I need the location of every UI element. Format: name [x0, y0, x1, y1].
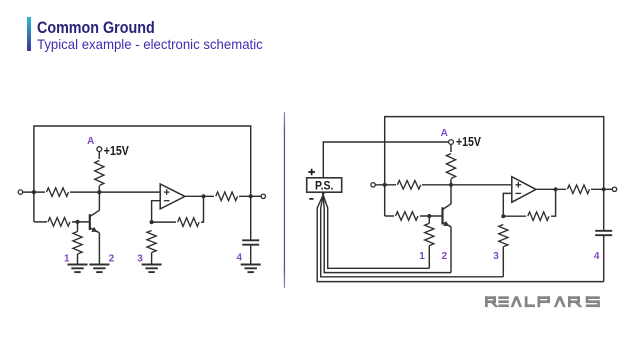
wire: op-amp output row (right) — [536, 188, 604, 190]
svg-text:4: 4 — [594, 251, 600, 262]
title — [37, 18, 155, 38]
junction: main row at collector (right) — [449, 183, 453, 187]
wire: ground bundle line 3 — [321, 193, 504, 277]
resistor input R left — [45, 186, 70, 198]
subtitle — [37, 37, 263, 52]
junction: inverting node (right) — [501, 214, 505, 218]
wire: second row base (right) — [385, 215, 443, 217]
resistor output (right) — [566, 183, 591, 195]
divider line — [284, 112, 285, 288]
svg-text:1: 1 — [64, 254, 70, 265]
resistor +15V supply (left) — [92, 159, 107, 186]
junction: output node (right) — [554, 187, 558, 191]
power supply P.S. wire + — [323, 142, 448, 178]
wire + resistor feedback (left) — [152, 196, 204, 222]
node A terminal (left) — [98, 152, 100, 192]
svg-text:1: 1 — [419, 251, 425, 262]
node A terminal (right) — [450, 144, 452, 184]
ground 4 — [241, 264, 261, 266]
wire: ground bundle line 4 — [317, 193, 604, 282]
wire + resistor feedback (right) — [503, 189, 555, 216]
junction: inverting node (left) — [150, 220, 154, 224]
svg-text:A: A — [87, 136, 94, 147]
resistor +15V supply (right) — [444, 152, 459, 179]
resistor R3 to ground (left) — [147, 231, 156, 253]
node OUT2 terminal — [604, 188, 613, 190]
capacitor C1 (left) — [250, 196, 252, 240]
svg-text:2: 2 — [109, 254, 115, 265]
op-amp U2 (right) — [503, 193, 512, 216]
junction: base node — [75, 220, 79, 224]
svg-text:+15V: +15V — [104, 143, 129, 158]
svg-text:2: 2 — [442, 251, 448, 262]
svg-text:+15V: +15V — [456, 134, 481, 149]
transistor Q2 (right) — [450, 185, 452, 205]
junction: main row at collector — [97, 190, 101, 194]
capacitor C2 (right) — [603, 189, 605, 230]
junction: right rail (right) — [602, 187, 606, 191]
power supply box P.S. — [307, 178, 342, 192]
resistor R1 to ground (left) — [77, 222, 79, 232]
op-amp U1 (left) — [152, 201, 161, 222]
svg-text:3: 3 — [493, 251, 499, 262]
resistor base R (right) — [394, 210, 420, 222]
junction: output node — [201, 194, 205, 198]
wire: op-amp output row (left) — [185, 195, 251, 197]
resistor output (left) — [214, 190, 239, 202]
wire: ground bundle line 1 — [323, 193, 430, 268]
resistor base R (left) — [47, 216, 72, 228]
ground 1 — [68, 264, 88, 266]
node OUT1 terminal — [251, 195, 262, 197]
label + (P.S.) — [308, 169, 315, 176]
junction: right rail (left) — [249, 194, 253, 198]
node IN1 input terminal — [23, 191, 161, 193]
resistor input R (right) — [396, 179, 422, 191]
REALPARS logo — [485, 296, 600, 307]
node IN2 input terminal — [375, 184, 512, 186]
resistor R1 (right) — [428, 216, 430, 223]
junction: base node (right) — [427, 214, 431, 218]
wire: right circuit top loop — [385, 117, 604, 216]
wire: second row (base) — [34, 221, 90, 223]
wire: ground bundle line 2 — [323, 193, 451, 273]
svg-text:4: 4 — [237, 253, 243, 264]
transistor Q1 (left) — [98, 192, 100, 210]
svg-text:A: A — [441, 128, 448, 139]
svg-text:3: 3 — [137, 254, 143, 265]
wire: left circuit top loop — [34, 126, 251, 222]
ground 2 — [89, 264, 109, 266]
svg-text:P.S.: P.S. — [315, 180, 334, 192]
title bar accent — [27, 17, 31, 51]
resistor R3 (right) — [499, 225, 508, 247]
ground 3 — [142, 264, 162, 266]
junction: left rail / input row (right) — [383, 183, 387, 187]
junction: left wire / input row — [32, 190, 36, 194]
label - (P.S.) — [309, 198, 313, 200]
